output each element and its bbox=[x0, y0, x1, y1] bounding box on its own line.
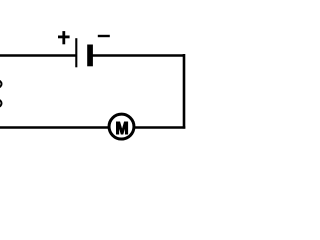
battery positive plate bbox=[75, 38, 77, 67]
battery negative plate bbox=[87, 45, 93, 67]
motor M circle bbox=[109, 114, 134, 139]
wire bottom-left segment bbox=[0, 126, 108, 129]
label + (battery positive) bbox=[58, 31, 70, 44]
wire bottom-right segment bbox=[135, 126, 186, 129]
wire right segment bbox=[183, 54, 186, 129]
label - (battery negative) bbox=[98, 35, 110, 37]
wire top-left segment bbox=[0, 54, 76, 57]
wire top-right segment bbox=[92, 54, 184, 57]
motor M letter bbox=[117, 122, 128, 134]
switch terminal lower (open circle, clipped at left edge) bbox=[0, 100, 2, 107]
switch terminal upper (open circle, clipped at left edge) bbox=[0, 81, 2, 88]
